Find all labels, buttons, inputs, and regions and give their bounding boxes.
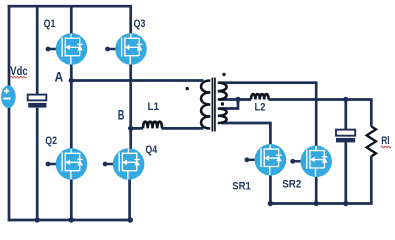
- svg-text:Q2: Q2: [45, 135, 57, 147]
- svg-text:Vdc: Vdc: [10, 64, 27, 78]
- svg-text:B: B: [118, 107, 125, 123]
- svg-text:Q4: Q4: [145, 144, 157, 156]
- svg-text:L1: L1: [148, 101, 160, 113]
- svg-text:Q1: Q1: [44, 18, 56, 30]
- svg-text:SR1: SR1: [232, 180, 251, 192]
- svg-text:A: A: [55, 68, 64, 84]
- svg-text:Q3: Q3: [134, 18, 146, 30]
- svg-text:Rl: Rl: [381, 135, 389, 147]
- svg-text:SR2: SR2: [282, 179, 301, 191]
- svg-text:L2: L2: [255, 102, 266, 114]
